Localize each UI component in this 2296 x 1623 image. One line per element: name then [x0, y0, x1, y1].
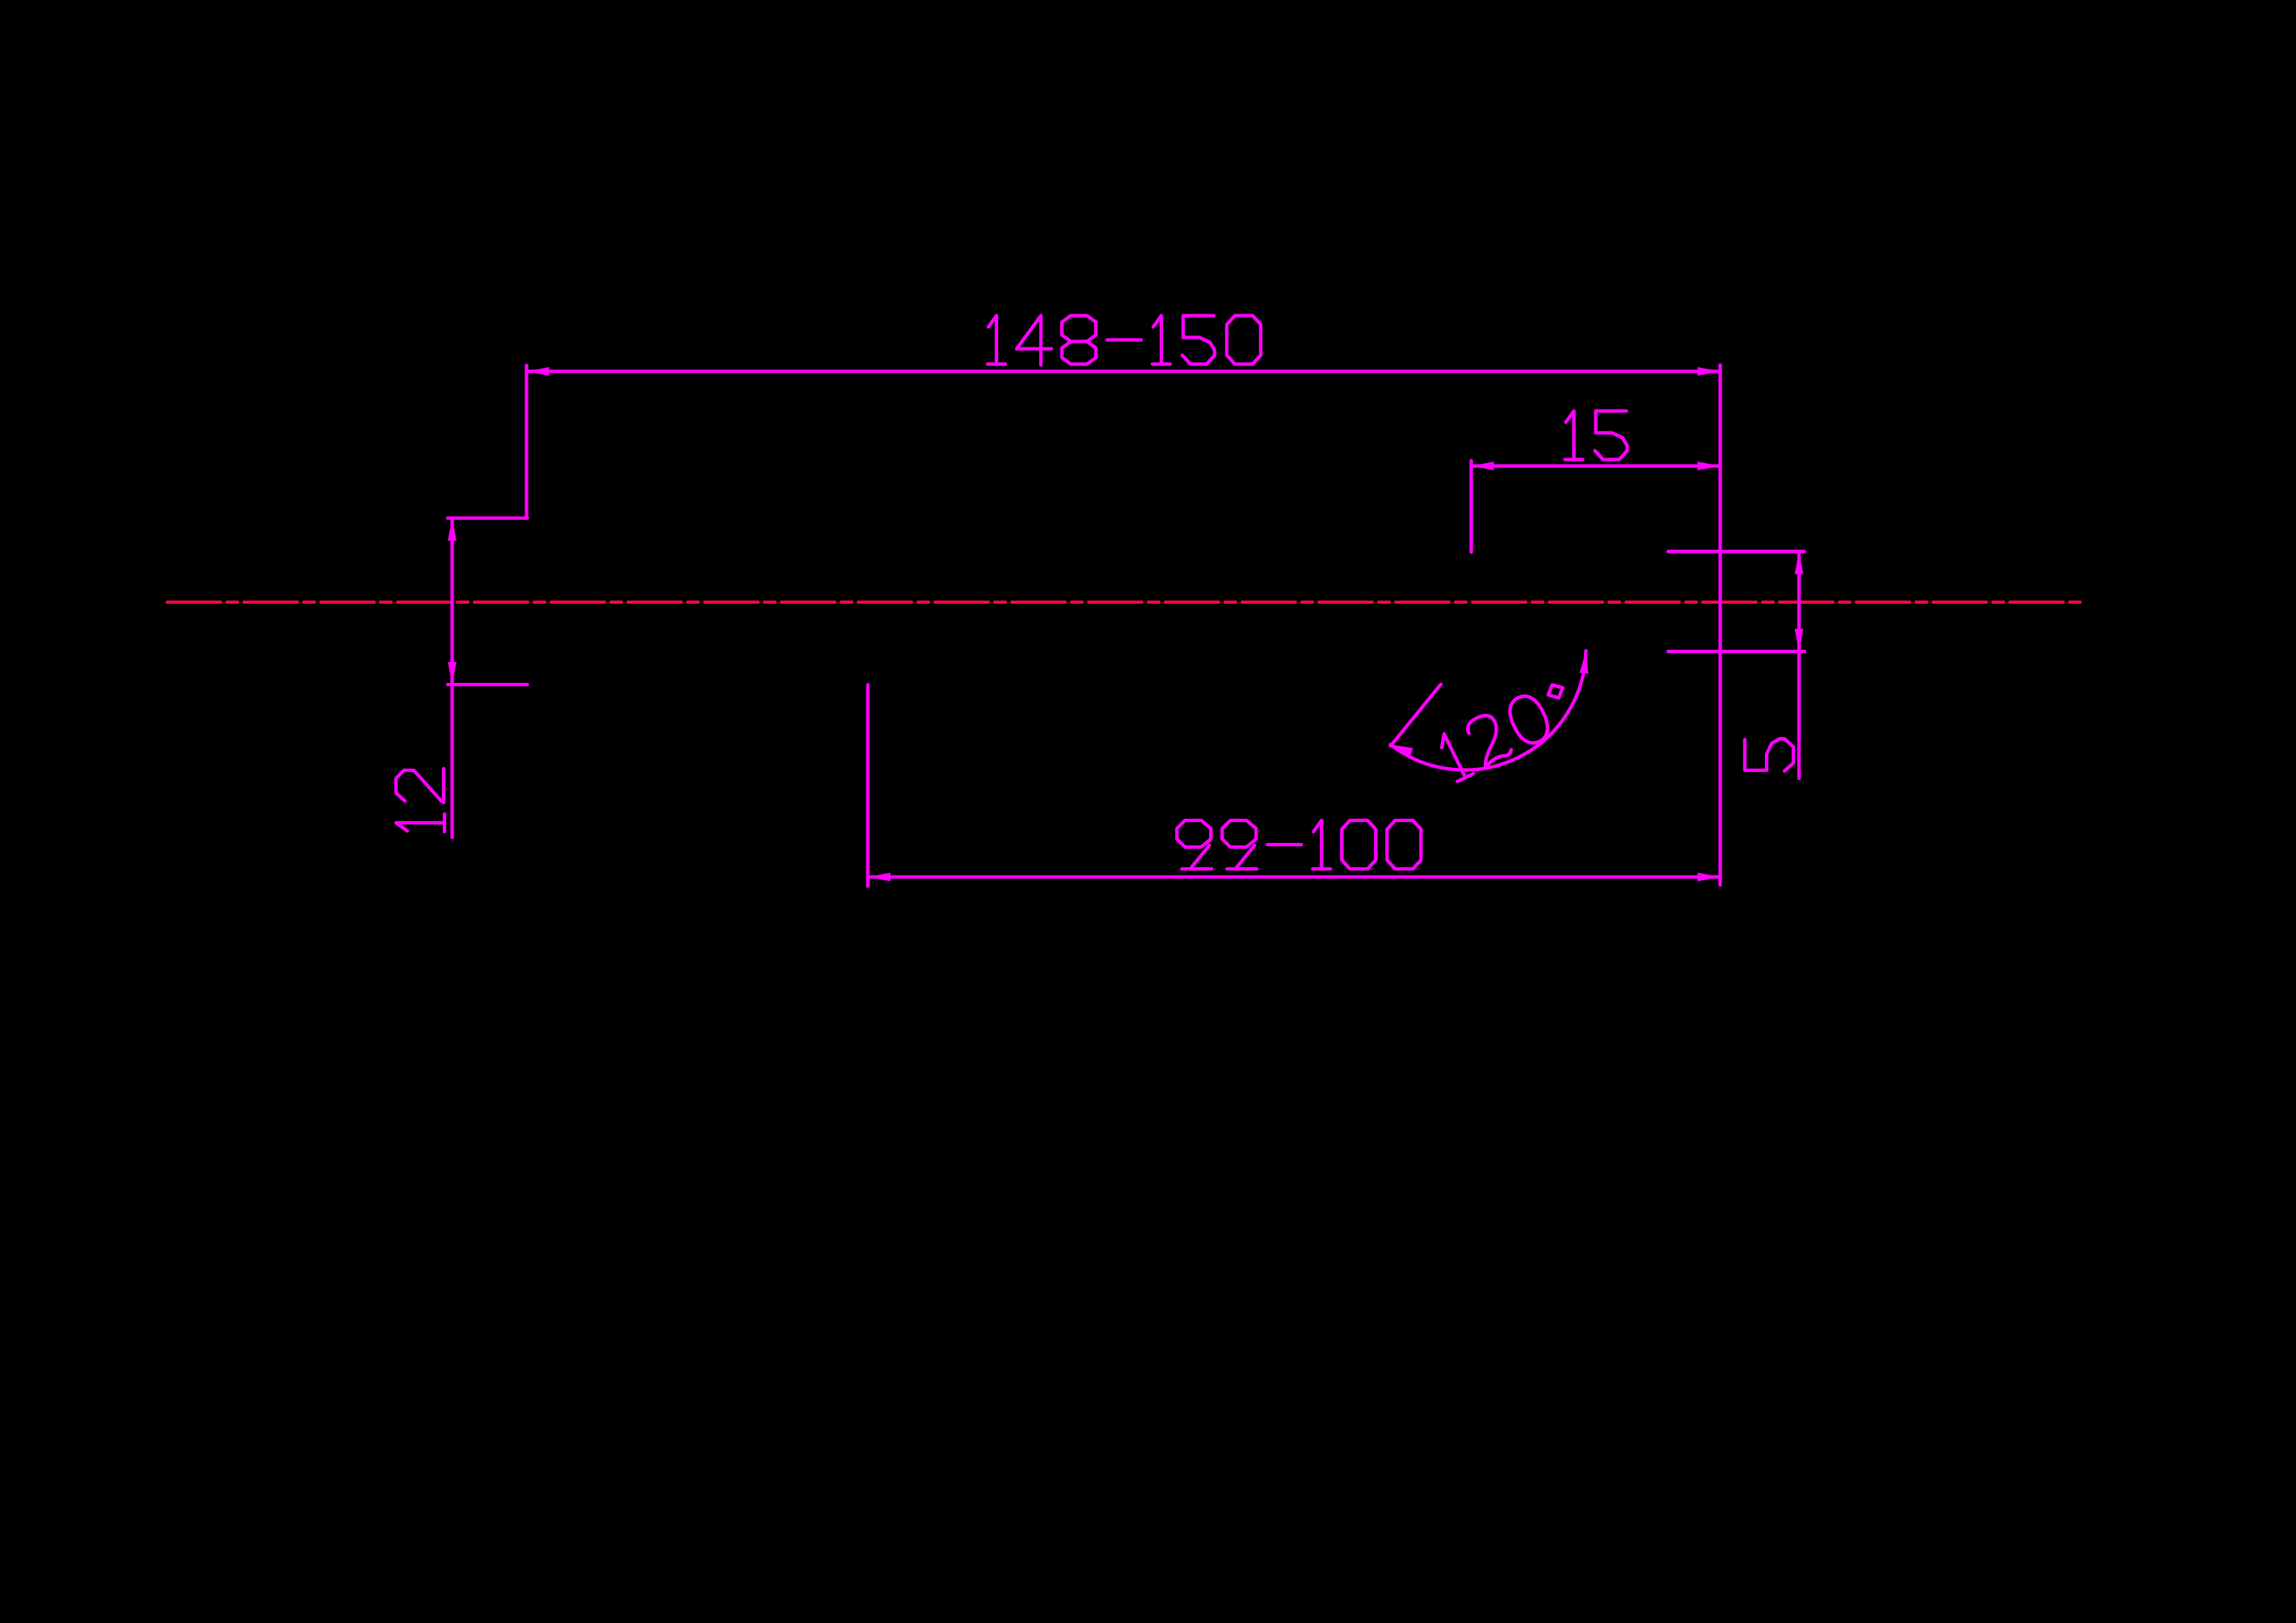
extension line bottom (5) — [1668, 650, 1805, 653]
text "99-100" — [1177, 820, 1211, 869]
extension line bottom step (12) — [448, 683, 528, 686]
extension line top (5) — [1668, 550, 1805, 553]
extension line top step (12) — [448, 516, 528, 520]
text "148-150" — [988, 316, 1005, 365]
dim arc 120deg — [1390, 651, 1586, 770]
text "120" — [1436, 730, 1473, 782]
arrow up 12 — [448, 518, 457, 541]
arrow right 15 — [1698, 462, 1721, 470]
text "12" — [396, 814, 444, 832]
arc arrow lower-left — [1388, 740, 1413, 757]
arrow right 148-150 — [1698, 367, 1721, 376]
dim line 15 — [1472, 464, 1721, 467]
extension line left (148-150) — [524, 365, 528, 518]
arrow left 99-100 — [868, 873, 891, 882]
arrow right 99-100 — [1698, 873, 1721, 882]
text "5" — [1745, 739, 1793, 771]
text "120deg" rotated — [1436, 678, 1579, 782]
arc arrow upper-right — [1580, 651, 1590, 674]
dim line 12 — [450, 518, 453, 837]
dim line 5 — [1797, 551, 1801, 778]
dim line 148-150 — [527, 369, 1721, 373]
text "5" rotated — [1745, 739, 1793, 771]
centerline (axis) — [167, 601, 2083, 604]
arrow down 5 — [1795, 629, 1804, 651]
arrow up 5 — [1795, 551, 1804, 574]
arrow left 15 — [1472, 462, 1494, 470]
dim line 99-100 — [868, 875, 1721, 879]
arrow down 12 — [448, 662, 457, 685]
text "15" — [1565, 411, 1583, 460]
extension line left (15) — [1469, 461, 1472, 552]
arrow left 148-150 — [527, 367, 550, 376]
extension line right (shared) — [1718, 365, 1721, 885]
extension line left (99-100) — [866, 685, 870, 886]
text "12" rotated — [396, 769, 444, 832]
extension line chamfer (120deg) — [1391, 685, 1441, 746]
